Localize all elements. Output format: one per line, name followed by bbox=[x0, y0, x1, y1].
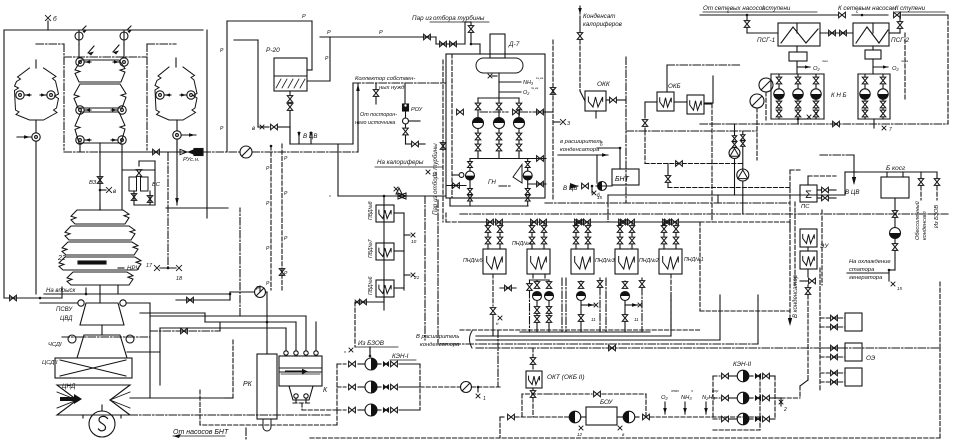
svg-text:ОКТ (ОКБ II): ОКТ (ОКБ II) bbox=[547, 374, 585, 381]
svg-text:ПВД№8: ПВД№8 bbox=[368, 201, 374, 220]
deaerator column D-7 bbox=[490, 34, 505, 58]
svg-text:К сетевым насосам: К сетевым насосам bbox=[838, 5, 897, 12]
wire stack bottom bbox=[99, 143, 101, 210]
wire heater group headers bbox=[78, 30, 80, 40]
wire mid horizontals left bbox=[140, 312, 205, 314]
svg-text:ПСВУ: ПСВУ bbox=[56, 307, 73, 313]
svg-text:РК: РК bbox=[243, 381, 253, 388]
wire dashed y187 bbox=[668, 187, 790, 189]
wire dashdot x626 bbox=[625, 57, 627, 203]
wire na vprysk line to RK bbox=[118, 293, 230, 295]
wire PND steam manifold dashed bbox=[460, 221, 700, 223]
node 2 marker bbox=[775, 397, 781, 399]
IP turbine TsSD bbox=[77, 335, 127, 358]
PND2 recirc riser bbox=[641, 278, 643, 281]
wire x443 bottom bbox=[442, 215, 444, 222]
valve below bbox=[579, 16, 581, 32]
wire down from V TsV bbox=[337, 144, 339, 196]
chem labels NH3 O2 bbox=[499, 81, 521, 83]
wire dashed risers with P labels bbox=[270, 146, 272, 290]
svg-text:Обессоленный: Обессоленный bbox=[914, 201, 921, 240]
svg-text:От сетевых насосов: От сетевых насосов bbox=[703, 5, 766, 12]
wire bzov down bbox=[369, 347, 371, 356]
heat exchanger OKB-2 bbox=[687, 95, 704, 114]
svg-text:¹ᵃ,⁴ᵃ: ¹ᵃ,⁴ᵃ bbox=[536, 76, 544, 81]
valves above ПНД№4 bbox=[531, 222, 533, 225]
flow element circle bbox=[240, 146, 252, 158]
valve kalorifer line bbox=[480, 111, 508, 113]
wire riser x671 x720 x758 tops bbox=[670, 295, 672, 300]
wire right frame verticals bbox=[206, 30, 208, 218]
condenser K bbox=[279, 356, 322, 386]
svg-text:БНТ: БНТ bbox=[615, 176, 630, 183]
LP heater ПНД№4 bbox=[527, 249, 550, 274]
OE box 3 bbox=[845, 368, 862, 386]
drain circle right vessel bbox=[173, 131, 181, 139]
wire BZOV valve to PVD line bbox=[369, 347, 371, 356]
svg-text:ЦВД: ЦВД bbox=[60, 316, 73, 322]
svg-text:калориферов: калориферов bbox=[583, 21, 623, 28]
valve bottom PVD bbox=[355, 301, 384, 303]
svg-text:7: 7 bbox=[815, 112, 818, 118]
svg-text:12: 12 bbox=[577, 432, 583, 437]
wire bottom main dashdot bbox=[130, 414, 330, 416]
wire knb headers bbox=[796, 23, 798, 33]
valves at deaerator frame bbox=[453, 183, 460, 189]
OE box 2 bbox=[845, 343, 862, 361]
wire x267 to top bbox=[266, 321, 269, 324]
svg-text:На охлаждение: На охлаждение bbox=[849, 259, 891, 265]
svg-text:21: 21 bbox=[413, 275, 420, 281]
wire boiler to left frame bbox=[4, 297, 62, 299]
wire dashdot main y124 bbox=[700, 123, 948, 125]
svg-text:НРЧ: НРЧ bbox=[127, 266, 140, 272]
wire ROU to PVD riser bbox=[406, 143, 412, 145]
valves above ПНД№1 bbox=[663, 222, 665, 225]
valves near RK top bbox=[176, 299, 230, 301]
psg1 inlet bbox=[746, 15, 748, 20]
psg1 drain box bbox=[789, 52, 807, 61]
wire dashdot right riser bbox=[947, 15, 949, 124]
deaerator tank bbox=[476, 58, 523, 73]
svg-text:N₂H₄: N₂H₄ bbox=[702, 395, 716, 401]
flow circle RK line bbox=[255, 287, 266, 298]
svg-text:11: 11 bbox=[634, 317, 639, 322]
svg-text:КЭН-II: КЭН-II bbox=[733, 361, 751, 368]
wire OE feed risers bbox=[819, 268, 821, 390]
wire B KOSG drain bbox=[894, 198, 896, 210]
psg2 outlet riser bbox=[899, 15, 901, 21]
flag marks bbox=[88, 46, 94, 53]
valves above ПНД№2 bbox=[619, 222, 621, 225]
svg-text:II ступени: II ступени bbox=[895, 5, 926, 12]
wire GN discharge bbox=[450, 205, 528, 207]
wire dashdot main y131 bbox=[626, 130, 757, 132]
wire top-left frame bbox=[4, 29, 203, 31]
heat exchanger OKB-1 bbox=[657, 92, 674, 111]
valves above ПНД№5 bbox=[487, 222, 489, 225]
svg-text:В конденсатор: В конденсатор bbox=[793, 274, 799, 318]
svg-text:В расширитель: В расширитель bbox=[416, 334, 460, 340]
pressure gauge 2 bbox=[120, 32, 128, 40]
flash vessel RK bbox=[257, 354, 277, 419]
svg-text:конденсат: конденсат bbox=[922, 211, 928, 240]
node v marker bbox=[99, 189, 102, 192]
LP heater ПНД№3 bbox=[571, 249, 594, 274]
svg-text:отбора турбины: отбора турбины bbox=[433, 14, 485, 22]
svg-text:РОУ: РОУ bbox=[411, 107, 423, 113]
dashdot crossover bbox=[62, 336, 150, 338]
deaerator internal columns bbox=[477, 98, 479, 103]
KEN-I manifolds bbox=[336, 364, 338, 410]
valve x668 drain bbox=[667, 164, 669, 176]
svg-text:1: 1 bbox=[483, 396, 486, 402]
IP2 section box bbox=[55, 358, 132, 378]
PND3 recirc riser bbox=[599, 278, 601, 281]
wire KEN-II suction from BOU bbox=[759, 376, 761, 417]
LP heater ПНД№5 bbox=[483, 249, 506, 274]
label V TsV right bbox=[820, 154, 854, 156]
valves above ПНД№3 bbox=[575, 222, 577, 225]
HP heater PVD8 bbox=[376, 280, 394, 297]
svg-text:ВЗ: ВЗ bbox=[89, 180, 97, 186]
psg2 drain box bbox=[865, 50, 881, 59]
svg-text:нор: нор bbox=[712, 389, 718, 393]
HP heater PVD9 bbox=[376, 205, 394, 222]
wire BOU bypass bbox=[522, 393, 548, 395]
pressure gauge 1 bbox=[75, 32, 83, 40]
svg-text:ПНД№5: ПНД№5 bbox=[463, 258, 483, 264]
feed pump GN 2 with horn bbox=[513, 165, 522, 184]
wire PVD right risers bbox=[424, 196, 426, 340]
heater stack tier1 bbox=[75, 60, 125, 82]
svg-text:³ᵃᶜᵉ: ³ᵃᶜᵉ bbox=[822, 59, 828, 64]
svg-text:7: 7 bbox=[889, 127, 892, 133]
wire riser x498 bbox=[497, 330, 499, 387]
generator G bbox=[89, 411, 115, 437]
valve below OKB bbox=[642, 120, 648, 127]
condenser hotwell bbox=[289, 386, 313, 400]
steam header over stack bbox=[64, 56, 147, 58]
svg-text:От посторон-: От посторон- bbox=[360, 112, 397, 118]
svg-text:в расширитель: в расширитель bbox=[560, 139, 603, 145]
deaerator manifold top bbox=[478, 97, 519, 99]
wire KEN-I dashed box bbox=[336, 410, 338, 425]
svg-text:I ступени: I ступени bbox=[762, 5, 791, 12]
PND3 drain pump bbox=[565, 278, 567, 332]
svg-text:Р: Р bbox=[379, 30, 383, 36]
svg-text:ных нужд: ных нужд bbox=[379, 85, 405, 91]
BOU vessel bbox=[586, 407, 617, 425]
svg-text:О₂: О₂ bbox=[813, 66, 821, 72]
psg1 to psg2 link bbox=[820, 32, 853, 34]
svg-text:2: 2 bbox=[783, 407, 787, 413]
dashdot frame right bbox=[147, 43, 176, 45]
condenser nozzles bbox=[284, 351, 288, 355]
valve VZ bbox=[97, 177, 103, 184]
svg-text:знач: знач bbox=[670, 389, 679, 393]
svg-text:Р-20: Р-20 bbox=[266, 47, 280, 54]
PND1 drain bbox=[670, 274, 672, 330]
svg-text:БОУ: БОУ bbox=[600, 399, 613, 406]
svg-text:Д-7: Д-7 bbox=[508, 41, 520, 48]
svg-text:NH₃: NH₃ bbox=[681, 395, 692, 401]
svg-text:ЦНД: ЦНД bbox=[62, 383, 76, 390]
svg-text:Конденсат: Конденсат bbox=[583, 13, 615, 20]
ROU unit bbox=[404, 83, 406, 104]
wire boiler downcomer bbox=[99, 205, 101, 210]
svg-text:ПНД№1: ПНД№1 bbox=[684, 257, 704, 263]
wire KEN-I outlet bbox=[420, 386, 460, 388]
wire bundle lines bbox=[476, 335, 671, 337]
svg-text:Б косг: Б косг bbox=[886, 165, 906, 172]
svg-text:11: 11 bbox=[591, 317, 596, 322]
svg-text:в: в bbox=[252, 126, 255, 132]
feed pump GN 1 bbox=[469, 159, 471, 162]
svg-text:ОКБ: ОКБ bbox=[668, 83, 681, 90]
svg-text:генератора: генератора bbox=[849, 275, 883, 281]
condensate pump B bbox=[742, 131, 744, 134]
wire x355-PVD to KEN bbox=[354, 302, 356, 347]
wire collector left drop bbox=[352, 83, 354, 144]
svg-text:ПНД№3: ПНД№3 bbox=[595, 258, 615, 264]
deaerator frame inner lines bbox=[451, 54, 453, 198]
boiler superheater bands bbox=[71, 210, 129, 224]
dashdot frame left bbox=[36, 43, 64, 45]
svg-text:ЭУ: ЭУ bbox=[820, 243, 829, 250]
flow circle outlet bbox=[461, 382, 472, 393]
BOU pumps bbox=[569, 411, 581, 423]
wire flow element right bbox=[252, 151, 358, 153]
wire oe feed main bbox=[700, 310, 790, 312]
svg-text:18: 18 bbox=[176, 276, 183, 282]
heater internals left vessel bbox=[16, 91, 24, 99]
valves below VS bbox=[131, 194, 137, 201]
ejector circle 2 bbox=[750, 94, 764, 108]
svg-text:О₂: О₂ bbox=[661, 395, 669, 401]
svg-text:ПВД№7: ПВД№7 bbox=[368, 239, 374, 258]
reducing valve RU s.n. bbox=[180, 149, 187, 154]
wire mains y214 y222 bbox=[460, 213, 948, 215]
svg-text:О₂: О₂ bbox=[892, 66, 900, 72]
PND5 drain bbox=[492, 274, 494, 306]
heater stack tier2 bbox=[74, 84, 126, 108]
svg-text:ПНД№2: ПНД№2 bbox=[639, 258, 659, 264]
wire pnd drains horizontal y330 bbox=[460, 329, 700, 331]
KNB group1 bottom marker bbox=[797, 118, 800, 121]
wire condenser feeds bbox=[285, 328, 287, 351]
wire pnd pump bottom line bbox=[520, 331, 650, 333]
valve on riser bbox=[279, 269, 285, 276]
PND2 drain pump bbox=[605, 278, 607, 332]
wire okb top frame bbox=[666, 65, 668, 92]
valve on steam riser x443 bbox=[440, 143, 446, 150]
wire VS branch bbox=[122, 169, 155, 171]
wire main y203 dashdot bbox=[545, 202, 790, 204]
sum box PS bbox=[800, 185, 817, 202]
wire dashed vertical x553 bbox=[552, 40, 554, 200]
svg-text:ПСГ-1: ПСГ-1 bbox=[757, 37, 775, 44]
svg-text:Из БЗОВ: Из БЗОВ bbox=[934, 205, 940, 228]
wire dashed y163 bbox=[645, 163, 744, 165]
svg-text:статора: статора bbox=[849, 267, 875, 273]
valve below OKT bbox=[532, 388, 534, 390]
svg-text:РУс.н.: РУс.н. bbox=[183, 157, 200, 163]
svg-text:КЭН-I: КЭН-I bbox=[392, 353, 409, 360]
node 3 marker bbox=[553, 121, 560, 123]
svg-text:конденсатора: конденсатора bbox=[560, 147, 600, 153]
heater internals right vessel bbox=[156, 91, 164, 99]
wire main steam to HP turbine bbox=[99, 285, 101, 303]
HP heater PVD7 bbox=[376, 243, 394, 260]
KEN-II manifolds bbox=[712, 376, 714, 419]
svg-text:ВС: ВС bbox=[152, 182, 161, 188]
svg-text:ПС: ПС bbox=[801, 204, 810, 210]
valve chain to BNT bbox=[570, 185, 578, 187]
valves on y222 bbox=[577, 219, 584, 225]
valve v feed bbox=[271, 124, 278, 130]
svg-text:10: 10 bbox=[432, 172, 438, 177]
svg-text:ч: ч bbox=[691, 389, 693, 393]
valve on RU line bbox=[153, 149, 160, 155]
wire network water main bbox=[700, 14, 838, 16]
svg-text:б: б bbox=[597, 193, 600, 199]
HP turbine TsVD bbox=[80, 303, 124, 325]
valves right of PS box bbox=[817, 189, 821, 191]
wire from x330 down to KEN bbox=[329, 195, 331, 197]
wire VS to header bbox=[154, 161, 156, 205]
wire collector dashdot bbox=[353, 82, 446, 84]
svg-text:На впрыск: На впрыск bbox=[46, 288, 77, 294]
valve on y348 bbox=[609, 345, 616, 351]
valve on x553 bbox=[550, 88, 556, 95]
wire RK top bbox=[266, 292, 268, 354]
wire from frame to right bbox=[545, 111, 553, 113]
LP heater ПНД№2 bbox=[615, 249, 638, 274]
svg-text:Коллектор собствен-: Коллектор собствен- bbox=[355, 76, 415, 82]
svg-text:ОЭ: ОЭ bbox=[866, 355, 876, 362]
LP turbine double flow bbox=[57, 385, 130, 415]
three-way valve top of PVD bbox=[398, 193, 406, 199]
svg-text:К Н Б: К Н Б bbox=[831, 92, 847, 99]
heater vessel HPH-left bbox=[15, 68, 59, 120]
svg-text:10: 10 bbox=[411, 239, 417, 245]
wire top lines to R-20 bbox=[227, 20, 312, 22]
wire LP to condenser lines bbox=[130, 397, 225, 399]
svg-text:³ᵃ,⁴ᵃ: ³ᵃ,⁴ᵃ bbox=[531, 86, 539, 91]
heat exchanger EU-2 bbox=[800, 251, 817, 269]
wire steam header y37 bbox=[320, 36, 436, 38]
wire bottom dashed main bbox=[310, 437, 940, 439]
wire risers from y222 to PND manifold bbox=[445, 213, 447, 222]
svg-text:15: 15 bbox=[897, 286, 903, 291]
heater vessel HPH-right bbox=[155, 67, 197, 120]
svg-text:в: в bbox=[113, 189, 116, 195]
pump stator cooling bbox=[890, 228, 901, 239]
svg-text:Р: Р bbox=[327, 30, 331, 36]
wire PS frame bbox=[789, 170, 791, 230]
svg-text:Из БЗОВ: Из БЗОВ bbox=[358, 340, 384, 347]
extraction bowties on manifold bbox=[487, 219, 494, 225]
PND4 drain pumps bbox=[532, 274, 534, 280]
ejector circle 1 bbox=[759, 78, 773, 92]
drain circle left vessel bbox=[32, 133, 40, 141]
OE box 1 bbox=[845, 313, 862, 331]
svg-text:ГН: ГН bbox=[488, 179, 496, 186]
wire turbine exhaust to K bbox=[225, 397, 233, 399]
expander VS bbox=[129, 177, 137, 191]
svg-text:В ЦВ: В ЦВ bbox=[845, 189, 859, 196]
heat exchanger OKT bbox=[526, 371, 542, 388]
wire PVD feed riser bbox=[383, 196, 385, 310]
wire RU line bbox=[64, 151, 100, 153]
wires demi water bbox=[920, 172, 922, 178]
svg-text:ОКК: ОКК bbox=[597, 81, 611, 88]
wire riser x177 arrow bbox=[176, 141, 178, 205]
valves steam to deaerator bbox=[440, 41, 447, 47]
deaerator frame bbox=[446, 54, 545, 198]
wire EU frame bbox=[794, 202, 796, 285]
wire junction 6 bbox=[597, 147, 620, 149]
wire OKB connections bbox=[674, 101, 687, 103]
wire RU dashdot to flow element bbox=[203, 151, 240, 153]
wire PVD drains right bbox=[394, 212, 404, 214]
svg-text:ЧСДI: ЧСДI bbox=[48, 342, 62, 348]
wire riser x168 bbox=[167, 153, 169, 268]
svg-text:О₂: О₂ bbox=[523, 90, 530, 96]
wire y222 right portion bbox=[700, 221, 790, 223]
svg-text:Пар из: Пар из bbox=[412, 15, 432, 22]
svg-text:ПВД№6: ПВД№6 bbox=[368, 276, 374, 295]
svg-text:22: 22 bbox=[57, 255, 66, 262]
valve right of OKK bbox=[606, 99, 609, 101]
valves below R-20 bbox=[289, 91, 291, 95]
node b vent marker bbox=[45, 15, 50, 20]
wire turbine shaft lines bbox=[120, 415, 122, 418]
arrow from external source bbox=[357, 84, 359, 152]
svg-text:От насосов БНТ: От насосов БНТ bbox=[173, 429, 229, 436]
valve below collector bbox=[375, 83, 377, 89]
O2 sample labels bbox=[797, 66, 810, 68]
condensate pump A bbox=[734, 124, 736, 135]
deaerator manifold bottom bbox=[470, 158, 528, 160]
svg-text:ПСГ-2: ПСГ-2 bbox=[891, 37, 910, 44]
wire header corner to deaerator bbox=[435, 37, 437, 44]
svg-text:На калориферы: На калориферы bbox=[377, 159, 424, 166]
wire okt riser bbox=[532, 348, 534, 357]
boiler band with fill bar bbox=[59, 257, 141, 270]
wire BOU line bbox=[500, 416, 506, 418]
svg-text:конденсатора: конденсатора bbox=[420, 342, 460, 348]
valve above VS bbox=[136, 170, 142, 177]
wire left dashdot x438 to bundle bbox=[437, 340, 439, 344]
black box RU bbox=[194, 149, 203, 156]
wires left risers to RK/K bbox=[239, 208, 241, 316]
KNB group2 bottom marker bbox=[873, 119, 875, 128]
heater stack tier3 bbox=[75, 112, 125, 143]
svg-text:Р: Р bbox=[302, 14, 306, 20]
svg-text:17: 17 bbox=[146, 263, 153, 269]
tank BNT bbox=[612, 169, 639, 185]
wire feedwater header y196 bbox=[338, 195, 446, 197]
valve vertical steam bbox=[470, 22, 472, 25]
valves below EU bbox=[807, 269, 809, 277]
KNB pump group 2 bbox=[858, 73, 890, 75]
KNB pump group 1 bbox=[771, 73, 824, 75]
wire tank down bbox=[498, 73, 500, 98]
svg-text:него источника: него источника bbox=[355, 120, 395, 126]
wire main y208 bbox=[166, 207, 228, 209]
